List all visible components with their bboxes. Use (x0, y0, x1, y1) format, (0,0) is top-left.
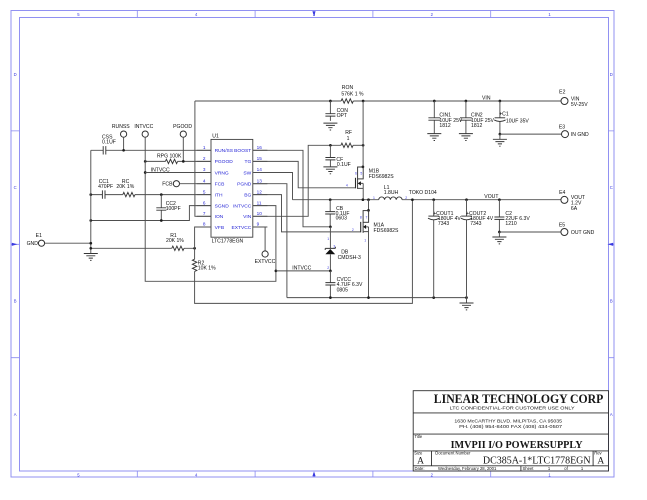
svg-text:1: 1 (327, 237, 329, 241)
terminal EXTVCC circle (262, 251, 268, 257)
terminal E4 VOUT (561, 196, 568, 203)
transistor M1A FDS6982S (361, 211, 369, 233)
svg-text:576K 1 %: 576K 1 % (341, 91, 364, 97)
wire E3 row (500, 133, 562, 135)
wire SW horizontal (293, 199, 379, 201)
wire pin10 VIN to RF row (253, 145, 341, 216)
transistor M1B FDS6982S (356, 167, 364, 189)
svg-text:1: 1 (203, 145, 206, 150)
wire CC2 stems (160, 195, 162, 221)
resistor R1 (172, 246, 184, 250)
wire FCB row (180, 183, 212, 185)
svg-text:0.1UF: 0.1UF (337, 162, 351, 168)
wire C2 ground stem (498, 232, 500, 237)
svg-text:6A: 6A (571, 206, 578, 212)
svg-text:10: 10 (257, 211, 263, 216)
svg-text:7343: 7343 (438, 221, 449, 227)
border ticks left (11, 131, 20, 358)
svg-text:CMDSH-3: CMDSH-3 (338, 255, 361, 261)
svg-text:7343: 7343 (470, 221, 481, 227)
ground C1 (493, 139, 507, 146)
node SW/VOUT rail junctions (329, 198, 332, 201)
wire pin15 TG routing (253, 161, 356, 187)
svg-text:0603: 0603 (336, 216, 347, 222)
svg-text:PGOOD: PGOOD (215, 159, 234, 165)
svg-text:RUNSS: RUNSS (112, 124, 130, 130)
svg-text:PGND: PGND (237, 182, 252, 188)
svg-text:11: 11 (257, 200, 262, 205)
capacitor CC1 (102, 190, 105, 198)
border ticks top (137, 11, 490, 18)
svg-text:INTVCC: INTVCC (233, 203, 252, 209)
svg-text:VIN: VIN (482, 96, 491, 102)
svg-text:C: C (610, 185, 613, 190)
svg-text:100PF: 100PF (166, 206, 181, 212)
svg-text:IMVPII I/O POWERSUPPLY: IMVPII I/O POWERSUPPLY (451, 440, 583, 451)
svg-text:1210: 1210 (505, 221, 516, 227)
wire RUN/SS row (91, 149, 211, 151)
svg-text:D: D (610, 72, 613, 77)
svg-text:4: 4 (203, 178, 206, 183)
wire CON stem (329, 101, 331, 121)
capacitor COUT1 polarized (428, 215, 439, 217)
svg-text:D: D (14, 72, 17, 77)
svg-text:5: 5 (203, 189, 206, 194)
wire PGOOD stem (182, 137, 184, 161)
svg-text:+C1: +C1 (499, 112, 509, 118)
svg-text:Sheet: Sheet (523, 466, 535, 471)
node ITH junctions (89, 193, 92, 196)
svg-text:VRNG: VRNG (215, 170, 229, 176)
svg-text:VOUT: VOUT (484, 194, 498, 200)
wire ITH row (91, 194, 211, 196)
capacitor CON (325, 114, 335, 116)
svg-text:Date:: Date: (415, 466, 425, 471)
svg-text:20K 1%: 20K 1% (166, 238, 184, 244)
terminal E1 GND (38, 240, 44, 246)
svg-text:RPG 100K: RPG 100K (157, 153, 182, 159)
svg-text:B: B (14, 299, 17, 304)
wire E5 row (499, 231, 561, 233)
border center arrow top (312, 11, 315, 16)
node RPG junctions (144, 160, 147, 163)
svg-text:1: 1 (373, 196, 375, 200)
terminal RUNSS circle (121, 131, 127, 137)
svg-text:E1: E1 (36, 233, 42, 239)
svg-text:1: 1 (347, 136, 350, 142)
ground CF (323, 167, 337, 174)
svg-text:EXTVCC: EXTVCC (231, 225, 251, 231)
svg-text:0.1UF: 0.1UF (102, 139, 116, 145)
svg-text:OUT GND: OUT GND (571, 230, 595, 236)
svg-text:7: 7 (365, 215, 367, 219)
wire pin13 PGND routing (253, 184, 287, 298)
svg-text:GND: GND (27, 241, 39, 247)
wire CF stem (329, 145, 331, 167)
wire pin16 BOOST routing (253, 150, 331, 227)
wire pin11 INTVCC routing (253, 206, 276, 271)
capacitor COUT2 polarized (461, 215, 472, 217)
terminal PGOOD circle (180, 131, 186, 137)
ground CON (323, 123, 337, 130)
svg-text:ION: ION (215, 214, 224, 220)
svg-text:12: 12 (257, 189, 263, 194)
capacitor CC2 (156, 208, 166, 210)
svg-text:LINEAR TECHNOLOGY CORP: LINEAR TECHNOLOGY CORP (434, 392, 604, 406)
svg-text:13: 13 (257, 178, 263, 183)
capacitor CVCC (325, 283, 335, 285)
wire COUT1 stems (433, 200, 435, 298)
node CSS/RUNSS junction (122, 149, 125, 152)
wire DB anode to INTVCC junction (329, 254, 331, 271)
wire VFB riser pin8 (195, 227, 211, 248)
svg-text:C: C (14, 185, 17, 190)
resistor RF (341, 143, 353, 147)
svg-text:Title: Title (415, 434, 423, 439)
wire M1A source to PGND rail (368, 227, 370, 298)
wire R2 bottom to VOUT sense riser (195, 200, 413, 304)
wire BOOST to DB cathode (329, 227, 331, 249)
node SGND junctions (89, 219, 92, 222)
ground C2 (492, 237, 506, 244)
capacitor C1 polarized (495, 117, 506, 119)
border center arrow right (607, 243, 613, 246)
svg-text:2: 2 (352, 228, 354, 232)
wire C1 ground stem (499, 134, 501, 139)
svg-text:FDS6982S: FDS6982S (374, 228, 400, 234)
capacitor CIN2 (460, 118, 472, 120)
svg-text:5V-25V: 5V-25V (571, 102, 588, 108)
svg-text:E3: E3 (559, 125, 565, 131)
terminal E3 IN GND (562, 131, 569, 138)
border center arrow bottom (312, 471, 315, 476)
svg-text:SW: SW (243, 170, 251, 176)
wire PGND rail (287, 297, 467, 299)
inductor L1 (379, 197, 402, 200)
capacitor C2 (494, 217, 504, 219)
wire M1A drain riser (368, 200, 370, 211)
node PGND rail junctions (329, 296, 332, 299)
svg-text:14: 14 (257, 167, 263, 172)
svg-text:A: A (597, 457, 604, 467)
node M1A drain (367, 209, 370, 212)
node INTVCC junction (275, 270, 278, 273)
node C1/E3 junction (499, 133, 502, 136)
node BOOST/CB junction (329, 225, 332, 228)
terminal E2 VIN (561, 98, 568, 105)
svg-text:IN GND: IN GND (571, 132, 589, 138)
capacitor CF (325, 158, 335, 160)
svg-text:1: 1 (364, 239, 366, 243)
svg-text:2: 2 (203, 156, 206, 161)
wire pin14 SW routing (253, 173, 293, 200)
svg-text:BOOST: BOOST (234, 148, 251, 154)
wire SGND row to pin 6 (91, 206, 211, 221)
wire CIN1 stems (433, 101, 435, 134)
svg-text:A: A (610, 412, 613, 417)
U1 pin stubs left 1-8 (197, 149, 211, 151)
svg-text:1.8UH: 1.8UH (384, 190, 399, 196)
svg-text:RUN/SS: RUN/SS (215, 148, 234, 154)
resistor RON (341, 99, 353, 103)
ground left rail (84, 254, 98, 261)
svg-text:20K 1%: 20K 1% (116, 184, 134, 190)
svg-text:LTC1778EGN: LTC1778EGN (212, 239, 244, 245)
wire C2 stems (498, 200, 500, 232)
svg-text:1812: 1812 (471, 123, 482, 129)
node DB/CVCC junction (329, 270, 332, 273)
ground CIN2 (459, 134, 473, 141)
svg-text:FDS6982S: FDS6982S (369, 174, 395, 180)
svg-text:8: 8 (203, 222, 206, 227)
svg-text:RON: RON (342, 85, 354, 91)
svg-text:E5: E5 (559, 223, 565, 229)
ground CIN1 (427, 134, 441, 141)
node M1B drain (362, 166, 365, 169)
wire COUT2 stems (466, 200, 468, 298)
wire INTVCC to DB/CVCC (276, 270, 331, 272)
svg-text:9: 9 (257, 222, 260, 227)
wire CB stems (329, 200, 331, 227)
node RF junctions (329, 144, 332, 147)
svg-text:5: 5 (360, 172, 362, 176)
resistor RC (123, 192, 135, 196)
svg-text:6: 6 (203, 200, 206, 205)
svg-text:EXTVCC: EXTVCC (255, 259, 276, 265)
svg-text:FCB: FCB (162, 181, 173, 187)
svg-text:7: 7 (203, 211, 206, 216)
diode DB CMDSH-3 (325, 247, 335, 255)
capacitor CIN1 (428, 118, 440, 120)
svg-text:8: 8 (360, 215, 362, 219)
svg-text:Wednesday, February 28, 2001: Wednesday, February 28, 2001 (438, 466, 497, 471)
svg-text:Document Number: Document Number (435, 451, 471, 456)
wire CVCC stems (329, 271, 331, 298)
svg-text:ITH: ITH (215, 192, 223, 198)
svg-text:4: 4 (346, 184, 348, 188)
border ticks bottom (137, 471, 490, 477)
svg-text:U1: U1 (212, 133, 219, 139)
wire R1 row (91, 247, 195, 249)
wire C1 stems (499, 101, 501, 134)
wire PGND ground stem (466, 298, 468, 303)
wire PGOOD row (145, 160, 211, 162)
terminal FCB circle (173, 181, 179, 187)
op-amp U1 LTC1778EGN body (211, 139, 253, 237)
svg-text:15: 15 (257, 156, 263, 161)
svg-text:VIN: VIN (243, 214, 252, 220)
node E1 junction (89, 242, 92, 245)
resistor R2 (194, 248, 196, 259)
svg-text:BG: BG (244, 192, 251, 198)
svg-text:DC385A-1*LTC1778EGN: DC385A-1*LTC1778EGN (483, 456, 591, 467)
capacitor CB (325, 212, 335, 214)
resistor RPG (165, 159, 177, 163)
border center arrow left (12, 243, 18, 246)
title block frame (413, 391, 608, 471)
node VIN rail junctions (329, 100, 332, 103)
svg-text:3: 3 (203, 167, 206, 172)
svg-text:E4: E4 (559, 190, 565, 196)
wire left rail (90, 150, 92, 253)
svg-text:2: 2 (327, 266, 329, 270)
svg-text:TG: TG (245, 159, 252, 165)
wire CIN2 stems (465, 101, 467, 134)
ground PGND rail (460, 303, 474, 310)
wire pin12 BG routing (253, 195, 361, 232)
svg-text:470PF: 470PF (98, 184, 113, 190)
wire VIN rail top (195, 100, 562, 102)
svg-text:LTC CONFIDENTIAL-FOR CUSTOMER: LTC CONFIDENTIAL-FOR CUSTOMER USE ONLY (450, 406, 575, 411)
wire VOUT rail (402, 199, 561, 201)
wire INTVCC vertical rail (145, 137, 276, 281)
terminal INTVCC circle (142, 131, 148, 137)
svg-text:INTVCC: INTVCC (134, 124, 153, 130)
wire E1 to rail (45, 242, 91, 244)
svg-text:VFB: VFB (215, 225, 225, 231)
svg-text:B: B (610, 299, 613, 304)
svg-text:FCB: FCB (215, 182, 225, 188)
wire RF right to M1B riser (353, 144, 363, 146)
svg-text:A: A (14, 412, 17, 417)
svg-text:6: 6 (355, 172, 357, 176)
capacitor CSS (103, 146, 106, 154)
svg-text:Rev: Rev (594, 451, 602, 456)
border ticks right (609, 131, 615, 358)
svg-text:Size: Size (414, 451, 423, 456)
svg-text:OPT: OPT (337, 113, 347, 119)
svg-text:10UF 35V: 10UF 35V (506, 119, 530, 125)
svg-text:0805: 0805 (337, 287, 348, 293)
node C2/E5 junction (498, 231, 501, 234)
svg-text:16: 16 (257, 145, 263, 150)
wire pin9 EXTVCC stem (253, 227, 265, 251)
svg-text:INTVCC: INTVCC (292, 266, 311, 272)
node R1 junctions (89, 247, 92, 250)
wire VRNG row (145, 172, 211, 174)
U1 pin stubs right 16-9 (253, 149, 268, 151)
svg-text:10K 1%: 10K 1% (198, 265, 216, 271)
terminal E5 OUT GND (561, 229, 568, 236)
wire M1B drain riser (362, 101, 364, 167)
svg-text:1812: 1812 (439, 123, 450, 129)
svg-text:E2: E2 (559, 89, 565, 95)
svg-text:PH. (408) 954-8400 FAX (408): PH. (408) 954-8400 FAX (408) 434-0507 (459, 424, 563, 429)
wire ION riser from rail down to pin 7 (195, 101, 211, 216)
svg-text:TOKO D104: TOKO D104 (409, 190, 437, 196)
wire M1B source to SW rail (362, 183, 364, 199)
svg-text:SGND: SGND (215, 203, 230, 209)
svg-text:PGOOD: PGOOD (173, 124, 192, 130)
node VRNG tee (144, 171, 147, 174)
svg-text:3: 3 (333, 244, 335, 248)
wire RUNSS stem (123, 137, 125, 150)
